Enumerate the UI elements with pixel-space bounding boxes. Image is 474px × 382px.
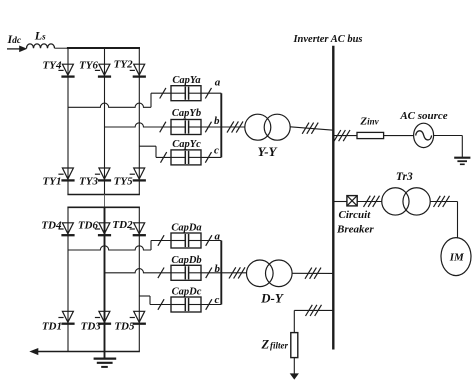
svg-text:TD1: TD1 xyxy=(42,321,62,333)
svg-text:TY6: TY6 xyxy=(79,59,98,71)
svg-text:CapYc: CapYc xyxy=(172,139,201,150)
svg-text:Breaker: Breaker xyxy=(336,224,374,236)
svg-text:TY1: TY1 xyxy=(43,176,62,188)
svg-text:CapDa: CapDa xyxy=(171,223,201,234)
svg-text:b: b xyxy=(214,115,220,127)
svg-text:Y-Y: Y-Y xyxy=(257,144,277,159)
svg-text:a: a xyxy=(215,76,221,88)
svg-text:IM: IM xyxy=(449,252,465,264)
svg-text:TD3: TD3 xyxy=(81,321,102,333)
svg-text:TD4: TD4 xyxy=(41,220,62,232)
svg-text:Z: Z xyxy=(261,337,270,351)
svg-text:TD5: TD5 xyxy=(114,321,135,333)
svg-text:D-Y: D-Y xyxy=(260,291,284,306)
svg-text:Inverter AC bus: Inverter AC bus xyxy=(292,34,362,45)
svg-text:TD6: TD6 xyxy=(78,220,99,232)
svg-text:filter: filter xyxy=(270,341,288,351)
svg-text:Zinv: Zinv xyxy=(359,116,379,128)
svg-text:CapYb: CapYb xyxy=(172,108,201,119)
svg-text:TY4: TY4 xyxy=(43,59,62,71)
svg-text:b: b xyxy=(215,263,221,275)
svg-text:Circuit: Circuit xyxy=(339,209,372,221)
svg-text:CapYa: CapYa xyxy=(172,75,200,86)
svg-text:TY3: TY3 xyxy=(79,176,98,188)
svg-text:TY2: TY2 xyxy=(114,59,133,71)
svg-text:CapDb: CapDb xyxy=(171,255,201,266)
svg-text:Tr3: Tr3 xyxy=(396,171,413,183)
svg-text:CapDc: CapDc xyxy=(172,287,202,298)
svg-text:c: c xyxy=(215,294,220,306)
svg-text:c: c xyxy=(214,145,219,157)
svg-text:TD2: TD2 xyxy=(112,219,133,231)
svg-text:AC source: AC source xyxy=(399,110,447,122)
svg-text:TY5: TY5 xyxy=(114,176,133,188)
svg-text:Ls: Ls xyxy=(34,29,46,43)
svg-text:a: a xyxy=(215,231,221,243)
